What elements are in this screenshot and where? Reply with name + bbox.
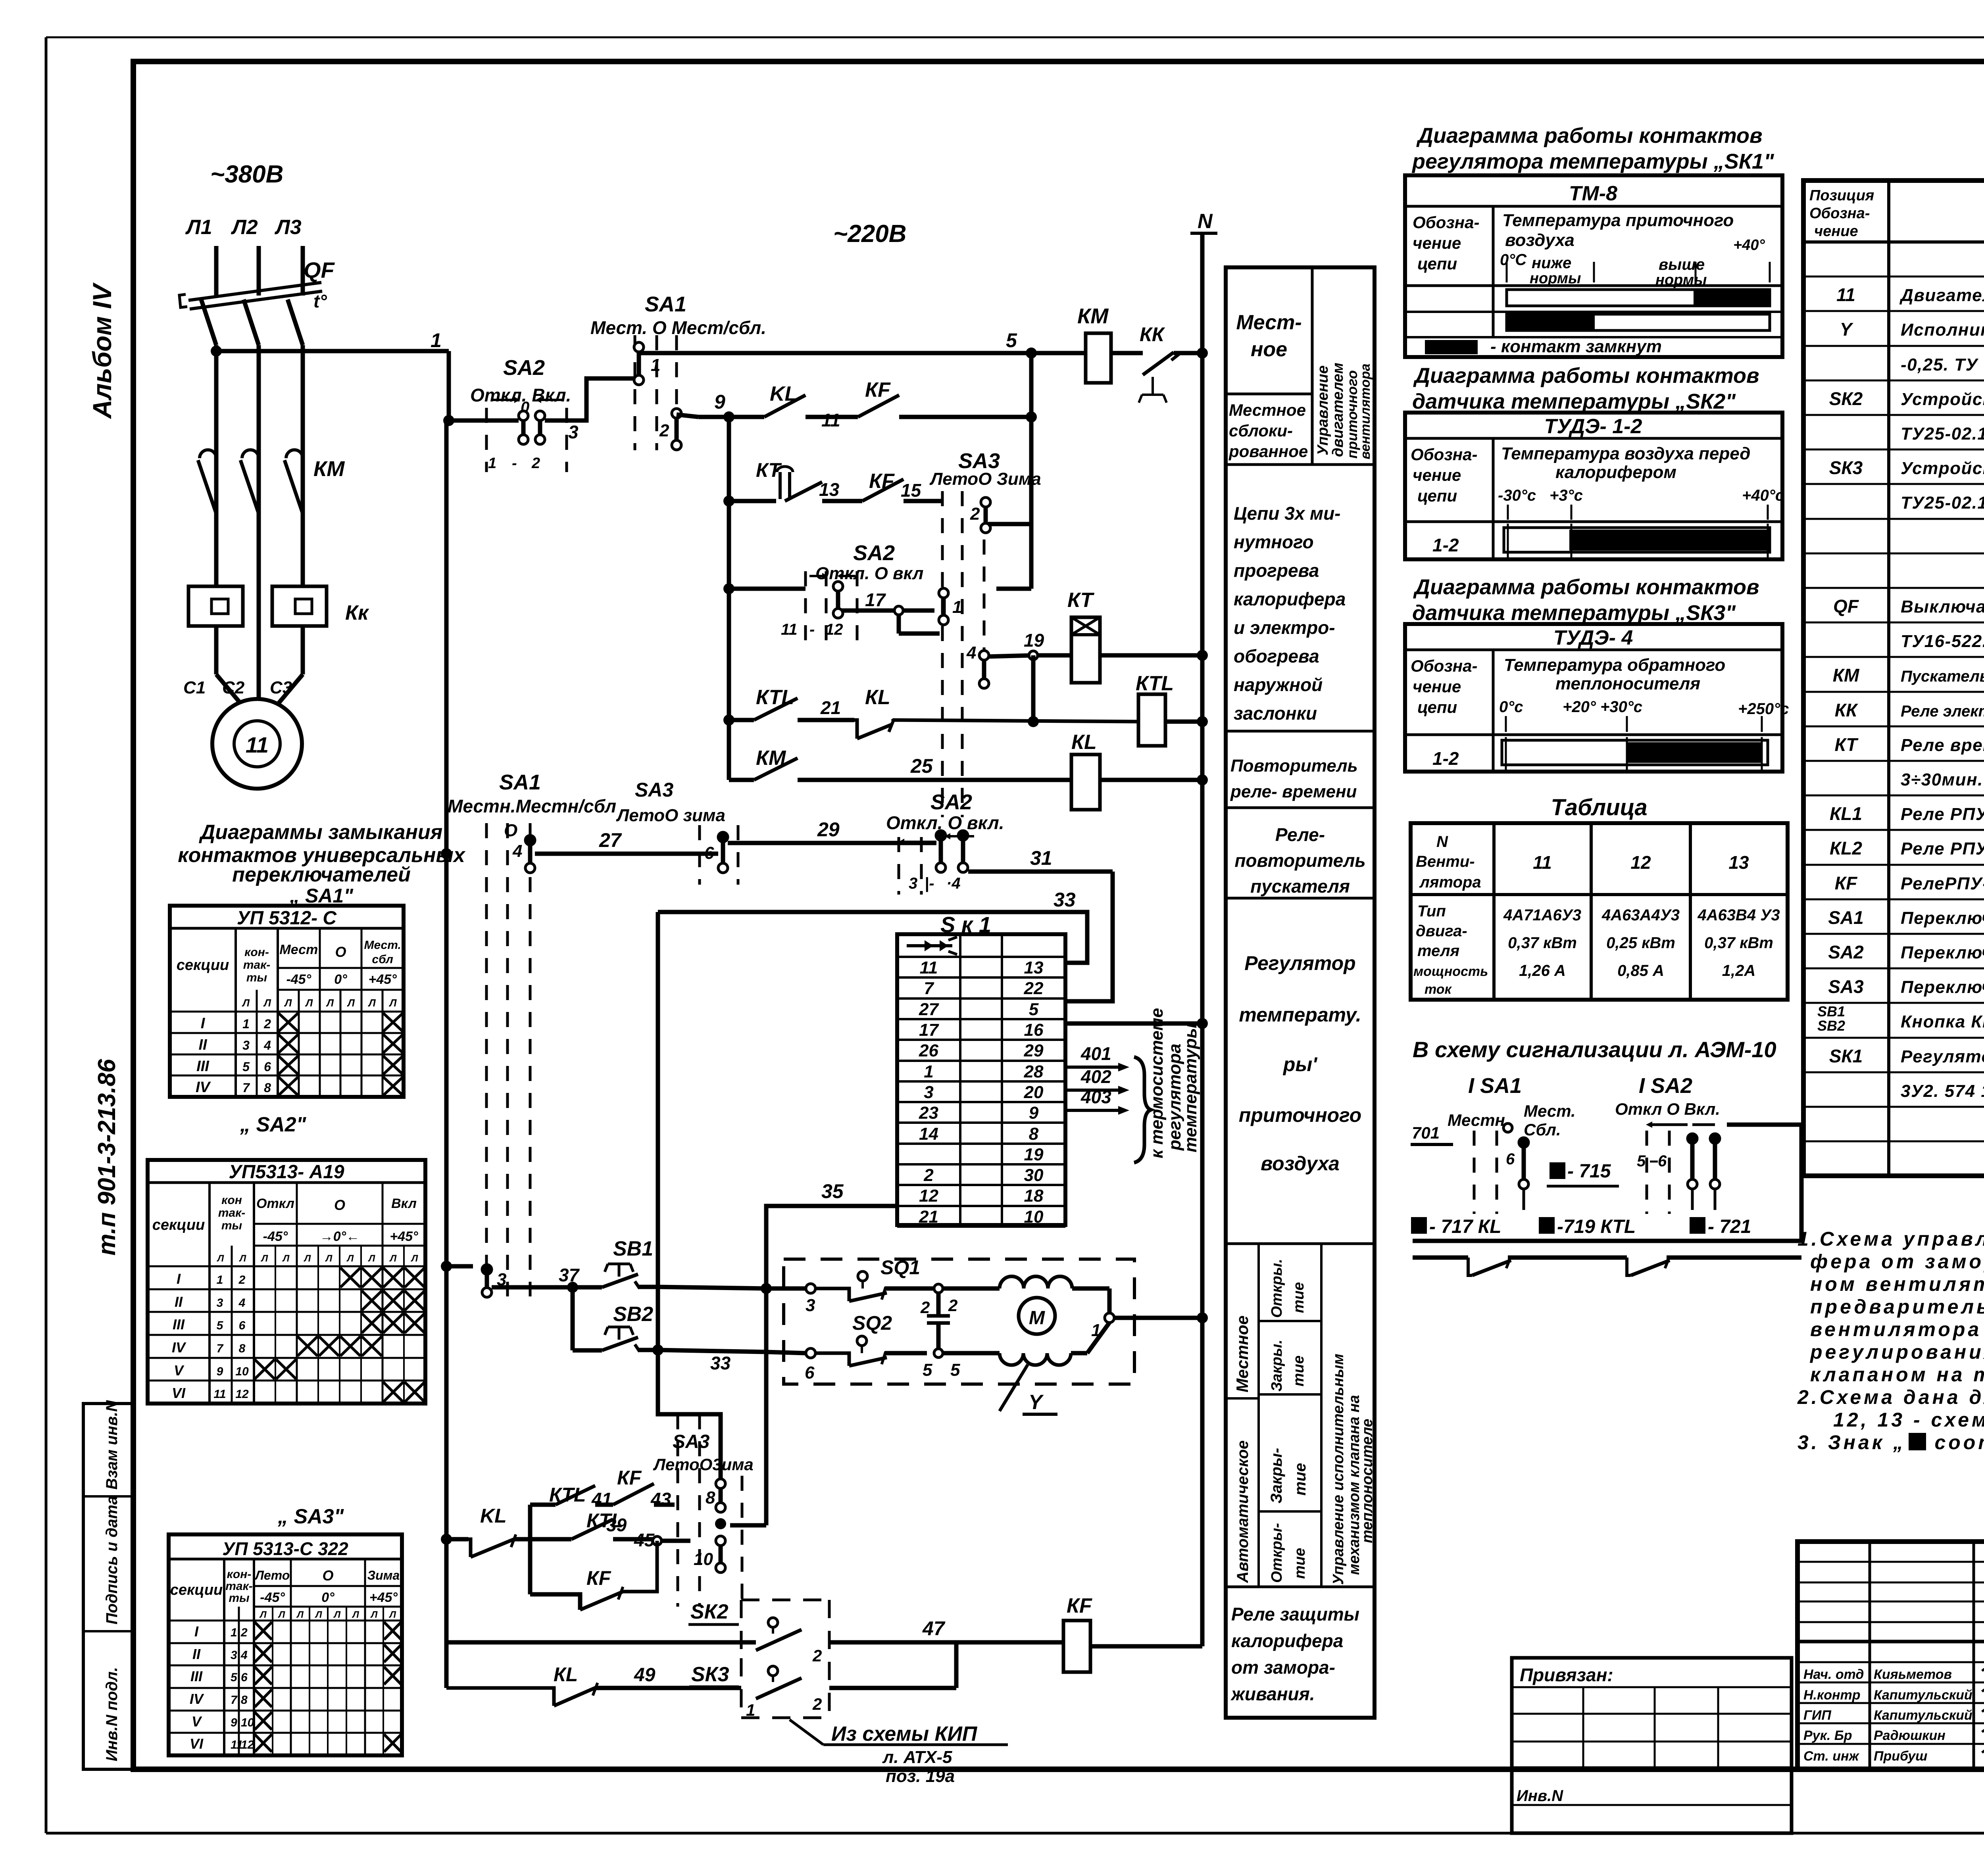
wires QF to KM	[216, 345, 303, 514]
svg-text:IV: IV	[190, 1691, 204, 1707]
svg-text:калорифера: калорифера	[1231, 1630, 1343, 1651]
svg-text:повторитель: повторитель	[1234, 850, 1365, 871]
note from KIP scheme	[790, 1720, 1008, 1767]
svg-text:УП 5313-С 322: УП 5313-С 322	[222, 1538, 348, 1559]
svg-text:t°: t°	[313, 291, 327, 311]
svg-text:Л2: Л2	[231, 216, 258, 239]
svg-text:так-: так-	[243, 958, 271, 972]
svg-text:16: 16	[1024, 1020, 1044, 1040]
svg-text:датчика температуры „SК3": датчика температуры „SК3"	[1412, 601, 1736, 625]
svg-text:III: III	[190, 1668, 203, 1684]
svg-text:ное: ное	[1251, 338, 1287, 361]
svg-text:Переключатель УП5312-С85 ТУ16: Переключатель УП5312-С85 ТУ16-524.074-75	[1901, 908, 1984, 928]
break contact KL row5	[854, 686, 1138, 739]
svg-text:Тип: Тип	[1417, 902, 1446, 920]
svg-text:КF: КF	[617, 1467, 642, 1489]
SA3 contact 2	[970, 497, 990, 533]
time contact KT row3	[723, 459, 862, 507]
svg-text:2: 2	[238, 1273, 246, 1287]
svg-text:33: 33	[1054, 889, 1076, 911]
svg-text:6: 6	[805, 1363, 815, 1383]
svg-text:ЛетоО Зима: ЛетоО Зима	[929, 469, 1041, 489]
svg-text:+250°с: +250°с	[1738, 700, 1789, 718]
svg-text:Цепи 3х ми-: Цепи 3х ми-	[1234, 503, 1341, 524]
svg-text:SA2: SA2	[503, 356, 545, 380]
label SA3	[277, 1505, 344, 1528]
switch SA2 contacts 1-2	[449, 356, 573, 472]
svg-text:1.Схема управления предусма: 1.Схема управления предусматривает защит…	[1798, 1228, 1984, 1250]
svg-text:3: 3	[242, 1038, 250, 1052]
svg-text:Y: Y	[1840, 319, 1854, 340]
rotated margin text t.p 901-3-213.86	[93, 1059, 121, 1256]
cell Rele-povtoritel puskatelya	[1226, 824, 1375, 898]
svg-text:SВ2: SВ2	[613, 1303, 653, 1326]
SK2 contact	[741, 1618, 829, 1665]
diagram title SK2	[1412, 364, 1759, 413]
svg-text:Диаграммы замыкания: Диаграммы замыкания	[199, 821, 443, 844]
svg-text:ТУ25-02.1074-75: ТУ25-02.1074-75	[1901, 424, 1984, 444]
relay coil KF	[1063, 1594, 1202, 1672]
parts list header	[1809, 187, 1984, 240]
svg-text:+45°: +45°	[369, 972, 397, 987]
svg-text:л. АТХ-5: л. АТХ-5	[882, 1747, 952, 1767]
svg-text:35: 35	[821, 1180, 844, 1202]
svg-text:49: 49	[634, 1665, 656, 1686]
svg-text:6: 6	[1506, 1150, 1515, 1168]
svg-text:1-2: 1-2	[1432, 535, 1459, 555]
label SK3	[689, 1663, 739, 1687]
svg-text:Реле электротепловое РТЛ-10060: Реле электротепловое РТЛ-100604.ТУ16-523…	[1901, 703, 1984, 720]
svg-text:12: 12	[235, 1388, 249, 1401]
svg-text:Откры-: Откры-	[1269, 1523, 1285, 1583]
svg-text:13: 13	[819, 479, 840, 500]
svg-text:Сбл.: Сбл.	[1524, 1120, 1561, 1139]
svg-text:8: 8	[1029, 1124, 1039, 1144]
SA3 contact 1	[939, 588, 962, 625]
svg-text:2: 2	[923, 1166, 934, 1185]
svg-text:Л: Л	[239, 1253, 246, 1264]
svg-text:КТ: КТ	[1835, 734, 1859, 755]
valve control cells	[1226, 1244, 1375, 1587]
svg-text:теля: теля	[1417, 942, 1459, 960]
svg-text:цепи: цепи	[1417, 698, 1457, 716]
incoming phase wires	[216, 246, 303, 296]
wire 29	[728, 818, 936, 843]
svg-text:температуры: температуры	[1181, 1023, 1200, 1152]
svg-text:SА1: SА1	[1828, 907, 1863, 928]
svg-text:Выключатель АЕ202Б-10Р-00У3: Выключатель АЕ202Б-10Р-00У3	[1901, 597, 1984, 616]
svg-text:4: 4	[512, 841, 522, 861]
SA3 section lines	[942, 491, 984, 817]
diagram title SK3	[1412, 575, 1759, 625]
svg-text:+20° +30°с: +20° +30°с	[1563, 698, 1642, 716]
svg-text:КК: КК	[1140, 323, 1165, 346]
svg-text:вентилятора и автоматическое: вентилятора и автоматическое подключение…	[1810, 1318, 1984, 1340]
riser 19 to KTL row	[1028, 655, 1039, 727]
svg-text:Температура воздуха перед: Температура воздуха перед	[1501, 444, 1750, 463]
svg-text:КL2: КL2	[1830, 838, 1862, 858]
svg-text:Закры.: Закры.	[1269, 1340, 1285, 1392]
svg-text:Позиция: Позиция	[1809, 187, 1874, 204]
svg-text:12: 12	[241, 1738, 254, 1751]
SA3 contact 4	[966, 643, 989, 688]
ISA2 contact group	[1615, 1100, 1720, 1214]
svg-text:Л1: Л1	[185, 216, 212, 239]
svg-text:11: 11	[1533, 852, 1552, 873]
svg-text:I SА2: I SА2	[1639, 1074, 1692, 1098]
notes text	[1797, 1228, 1984, 1454]
svg-text:Мест-: Мест-	[1236, 311, 1302, 334]
wire contact8 top rail	[716, 1504, 721, 1505]
wire 47 to KF coil	[829, 1617, 1063, 1642]
title block frame	[1798, 1542, 1984, 1769]
svg-text:12, 13 - схема аналогична.: 12, 13 - схема аналогична.	[1833, 1409, 1984, 1431]
svg-text:УП 5312- С: УП 5312- С	[237, 908, 337, 929]
svg-text:SК3: SК3	[691, 1663, 729, 1686]
svg-text:1: 1	[242, 1017, 250, 1031]
parts list table grid	[1803, 180, 1984, 1176]
svg-text:Откл О Вкл.: Откл О Вкл.	[1615, 1100, 1720, 1118]
svg-text:Капитульский: Капитульский	[1874, 1688, 1972, 1703]
svg-text:13: 13	[1024, 958, 1044, 977]
cell Cepi progreva	[1226, 503, 1375, 731]
svg-text:7: 7	[231, 1694, 238, 1707]
wire from SA3-2	[988, 522, 1030, 526]
wire 13 and contact KF row3	[819, 470, 942, 501]
svg-text:4А63А4У3: 4А63А4У3	[1601, 906, 1680, 924]
riser 33	[656, 912, 660, 1414]
svg-text:SА2: SА2	[1828, 942, 1864, 962]
svg-text:Кнопка КЕ011У3 исп 2. ТУ16-526: Кнопка КЕ011У3 исп 2. ТУ16-526.407-79	[1901, 1012, 1984, 1031]
svg-text:+40°: +40°	[1733, 237, 1765, 253]
svg-text:26: 26	[919, 1041, 938, 1060]
svg-text:тие: тие	[1292, 1463, 1309, 1496]
SA1 contact 3	[441, 1261, 506, 1297]
svg-text:Л: Л	[389, 1253, 397, 1264]
svg-text:секции: секции	[152, 1217, 205, 1233]
svg-text:Управление исполнительным: Управление исполнительным	[1330, 1354, 1347, 1585]
svg-text:6: 6	[239, 1319, 246, 1332]
svg-text:теплоносителя: теплоносителя	[1555, 674, 1700, 693]
svg-text:реле- времени: реле- времени	[1230, 782, 1357, 801]
label SK2	[688, 1600, 739, 1624]
svg-text:SA1: SA1	[645, 292, 686, 316]
svg-text:Н.контр: Н.контр	[1803, 1688, 1861, 1703]
svg-text:17: 17	[919, 1020, 939, 1040]
svg-text:→0°←: →0°←	[320, 1229, 360, 1244]
svg-text:2: 2	[240, 1626, 248, 1639]
contact KL row 39	[441, 1505, 627, 1557]
wire 37	[492, 1265, 602, 1293]
svg-text:SQ1: SQ1	[880, 1256, 920, 1279]
motor 11	[212, 699, 302, 789]
wire 31	[968, 847, 1113, 1001]
svg-text:43: 43	[650, 1489, 671, 1509]
svg-text:КМ: КМ	[1833, 665, 1860, 685]
svg-text:вентилятора: вентилятора	[1358, 363, 1373, 459]
svg-text:чение: чение	[1413, 234, 1461, 252]
svg-text:наружной: наружной	[1234, 674, 1323, 695]
svg-text:сблоки-: сблоки-	[1229, 421, 1293, 440]
svg-text:SК2: SК2	[1829, 388, 1863, 409]
svg-text:QF: QF	[1833, 596, 1859, 616]
svg-text:„ SА2": „ SА2"	[240, 1113, 307, 1136]
svg-text:Л: Л	[278, 1609, 285, 1620]
svg-text:0°С: 0°С	[1500, 251, 1527, 269]
svg-text:17: 17	[865, 589, 886, 610]
contact KTL branch 45	[530, 1509, 690, 1550]
svg-text:N: N	[1436, 833, 1448, 851]
actuator dashed box	[784, 1259, 1134, 1384]
svg-text:5: 5	[217, 1319, 224, 1332]
diagram table TM-8	[1405, 175, 1782, 357]
svg-text:5: 5	[242, 1060, 250, 1074]
riser SQ rows to SA3	[715, 1288, 766, 1529]
svg-text:IV: IV	[172, 1339, 186, 1356]
output arrows 401 402 403	[1065, 1043, 1129, 1115]
svg-text:Кияьметов: Кияьметов	[1874, 1667, 1952, 1682]
svg-text:О: О	[504, 821, 517, 840]
svg-text:II: II	[198, 1037, 208, 1053]
svg-text:Диаграмма работы контактов: Диаграмма работы контактов	[1416, 124, 1763, 148]
svg-text:11: 11	[213, 1388, 226, 1401]
svg-text:Рук. Бр: Рук. Бр	[1803, 1728, 1852, 1743]
svg-text:2.Схема дана для вентилят: 2.Схема дана для вентилятора 11, для вен…	[1797, 1386, 1984, 1408]
wire 16 to N bus	[1065, 1018, 1208, 1029]
svg-text:13: 13	[1728, 852, 1749, 873]
svg-text:8: 8	[264, 1081, 271, 1095]
svg-text:КF: КF	[586, 1567, 611, 1589]
svg-text:секции: секции	[170, 1582, 223, 1598]
svg-text:Пускатель ПМЛ-110004Б; Н~220В: Пускатель ПМЛ-110004Б; Н~220В ТУ16-644.0…	[1901, 668, 1984, 685]
svg-text:27: 27	[599, 829, 622, 851]
contact KTL row5	[723, 686, 854, 726]
switch SA3 lower labels	[653, 1431, 754, 1474]
labels V-717 KL V-719 KTL V-721	[1411, 1216, 1751, 1237]
parts list rows	[1817, 248, 1984, 1101]
bus for rows 3-6	[723, 411, 734, 780]
rotated Mestnoe (valve)	[1233, 1315, 1252, 1392]
svg-text:SA2: SA2	[930, 790, 972, 814]
limit switch SQ2	[805, 1312, 960, 1383]
svg-text:1: 1	[217, 1273, 223, 1287]
svg-text:ГИП: ГИП	[1803, 1708, 1832, 1723]
svg-text:Переключатель УП5313-А19 ТУ16: Переключатель УП5313-А19 ТУ16-524.074-75	[1901, 943, 1984, 962]
svg-text:Устройство терморегулирующееТУ: Устройство терморегулирующееТУДЕ-1-2	[1901, 390, 1984, 409]
svg-text:3÷30мин. ТУ16-647.002-83: 3÷30мин. ТУ16-647.002-83	[1901, 770, 1984, 789]
svg-text:1: 1	[651, 355, 660, 375]
contact KF branch 43	[613, 1467, 716, 1509]
svg-text:18: 18	[1024, 1186, 1044, 1206]
svg-text:I: I	[194, 1623, 199, 1640]
temperature regulator SK1 table	[897, 934, 1065, 1227]
svg-text:7: 7	[924, 979, 934, 998]
svg-text:2: 2	[920, 1298, 930, 1317]
svg-text:23: 23	[919, 1103, 938, 1123]
wire 35	[766, 1180, 897, 1288]
svg-text:от замора-: от замора-	[1231, 1657, 1335, 1678]
svg-text:Местное: Местное	[1229, 401, 1306, 419]
svg-text:О: О	[335, 944, 346, 960]
svg-text:10: 10	[241, 1716, 254, 1729]
switch diagram table SA1	[170, 906, 404, 1097]
svg-text:SК1: SК1	[1829, 1046, 1863, 1066]
SA3 lower section lines	[678, 1414, 742, 1607]
svg-text:калорифером: калорифером	[1555, 463, 1676, 482]
svg-text:Исполнительный механизм М90-0: Исполнительный механизм М90-0,63/63-	[1901, 320, 1984, 340]
svg-text:- 717 КL: - 717 КL	[1429, 1216, 1501, 1237]
svg-text:Л: Л	[315, 1609, 322, 1620]
svg-text:ТУДЭ- 4: ТУДЭ- 4	[1553, 626, 1633, 649]
svg-text:лятора: лятора	[1419, 874, 1481, 891]
title block signatures	[1803, 1666, 1984, 1764]
svg-text:47: 47	[922, 1617, 946, 1640]
svg-text:Л: Л	[305, 997, 313, 1009]
svg-text:+45°: +45°	[369, 1590, 398, 1605]
svg-text:Л: Л	[263, 997, 271, 1009]
svg-text:КL1: КL1	[1830, 803, 1862, 824]
svg-text:ТМ-8: ТМ-8	[1569, 182, 1617, 205]
svg-text:Реле РПУ-2-М36220У3-Б ТУ16-523: Реле РПУ-2-М36220У3-Б ТУ16-523.331-78	[1901, 805, 1984, 824]
svg-text:цепи: цепи	[1417, 486, 1457, 505]
riser from wire5	[996, 353, 1037, 589]
svg-text:8: 8	[706, 1488, 715, 1507]
svg-text:10: 10	[235, 1365, 249, 1378]
svg-text:III: III	[173, 1316, 185, 1333]
svg-text:Устройство терморегулирующее Т: Устройство терморегулирующее ТУДБ-4	[1901, 459, 1984, 478]
svg-text:6: 6	[241, 1671, 248, 1684]
svg-text:Л: Л	[325, 1253, 333, 1264]
svg-text:|-: |-	[925, 875, 934, 892]
svg-text:IV: IV	[196, 1079, 211, 1096]
diagram table TUDE-4	[1405, 624, 1789, 772]
svg-text:+3°с: +3°с	[1550, 487, 1583, 504]
svg-text:Местн.Местн/сбл: Местн.Местн/сбл	[448, 796, 616, 816]
signalling scheme title	[1413, 1037, 1776, 1062]
svg-text:Автоматическое: Автоматическое	[1234, 1440, 1252, 1583]
svg-text:4А71А6У3: 4А71А6У3	[1503, 906, 1581, 924]
svg-text:Л: Л	[259, 1609, 267, 1620]
svg-text:ЛетоО3има: ЛетоО3има	[653, 1455, 754, 1474]
svg-text:S к 1: S к 1	[940, 912, 991, 937]
svg-text:Кк: Кк	[345, 601, 369, 624]
svg-text:УП5313- А19: УП5313- А19	[229, 1162, 344, 1183]
svg-text:Мест. О Мест/сбл.: Мест. О Мест/сбл.	[590, 317, 766, 338]
svg-text:переключателей: переключателей	[232, 863, 411, 886]
note poz 19a	[886, 1767, 955, 1786]
svg-text:тие: тие	[1290, 1356, 1307, 1386]
svg-text:8: 8	[239, 1342, 246, 1355]
svg-text:20: 20	[1024, 1083, 1044, 1102]
label ISA2	[1639, 1074, 1692, 1098]
cell Povtoritel rele-vremeni	[1226, 756, 1375, 808]
svg-text:7: 7	[217, 1342, 224, 1355]
label SK1	[940, 912, 991, 937]
svg-text:к термосистеме: к термосистеме	[1147, 1008, 1167, 1158]
circuit breaker QF	[179, 257, 335, 345]
svg-text:Л3: Л3	[274, 216, 302, 239]
ISA1 contact group	[1411, 1102, 1576, 1214]
svg-text:Закры-: Закры-	[1268, 1448, 1285, 1503]
svg-text:4А63В4 У3: 4А63В4 У3	[1697, 906, 1780, 924]
svg-text:фера от замораживания при: фера от замораживания при работающем отк…	[1810, 1250, 1984, 1273]
row 49 KL contact	[446, 1663, 741, 1706]
cell Mestnoe	[1226, 267, 1312, 465]
time relay coil KTL	[1136, 672, 1208, 746]
svg-text:22: 22	[1024, 979, 1044, 998]
wire 49 joins 47	[829, 1642, 956, 1688]
contact diagrams header	[178, 821, 466, 907]
svg-text:4: 4	[966, 643, 976, 662]
svg-text:Двигатель ТУ16-510.: Двигатель ТУ16-510. 36Б- 77	[1899, 286, 1984, 305]
thermal contact KK	[1134, 323, 1202, 403]
svg-text:Откл. О вкл: Откл. О вкл	[815, 564, 923, 583]
svg-text:III: III	[196, 1058, 210, 1075]
left stamp column	[83, 1404, 133, 1769]
svg-text:кон-: кон-	[227, 1568, 252, 1581]
svg-text:КF: КF	[865, 378, 891, 401]
svg-text:Обозна-: Обозна-	[1411, 445, 1477, 464]
svg-text:VI: VI	[172, 1385, 186, 1401]
svg-text:Радюшкин: Радюшкин	[1874, 1728, 1946, 1743]
svg-text:28: 28	[1024, 1062, 1044, 1081]
svg-text:SК3: SК3	[1829, 457, 1863, 478]
svg-text:Температура приточного: Температура приточного	[1502, 211, 1734, 230]
svg-text:SВ1: SВ1	[1817, 1003, 1845, 1020]
SA3 contact 8	[706, 1479, 725, 1512]
svg-text:мощность: мощность	[1413, 964, 1488, 979]
ladder left riser	[528, 1505, 533, 1594]
svg-text:II: II	[192, 1646, 201, 1662]
svg-text:- контакт замкнут: - контакт замкнут	[1490, 337, 1662, 356]
svg-text:„ SА1": „ SА1"	[289, 885, 354, 907]
N bus	[1190, 210, 1217, 1646]
svg-text:11: 11	[246, 732, 269, 757]
svg-text:2: 2	[812, 1695, 822, 1713]
svg-text:1: 1	[488, 455, 496, 472]
time relay coil KT	[1067, 589, 1208, 683]
svg-text:-45°: -45°	[263, 1229, 288, 1244]
svg-text:Л: Л	[347, 997, 355, 1009]
svg-text:5: 5	[923, 1360, 932, 1380]
svg-text:воздуха: воздуха	[1261, 1152, 1340, 1175]
svg-text:„ SА3": „ SА3"	[277, 1505, 344, 1528]
svg-text:3: 3	[231, 1649, 237, 1662]
cell Mestnoe sblokirovannoe	[1226, 401, 1375, 465]
svg-text:402: 402	[1080, 1066, 1111, 1087]
svg-text:KL: KL	[480, 1505, 507, 1527]
rotated Upravlenie ispolnitelnym	[1330, 1354, 1376, 1585]
svg-text:2: 2	[531, 455, 540, 472]
svg-text:19: 19	[1024, 1145, 1044, 1164]
svg-text:Привязан:: Привязан:	[1520, 1665, 1613, 1685]
svg-text:19: 19	[1024, 630, 1044, 651]
svg-text:6: 6	[1658, 1152, 1667, 1170]
relay contact KL row2	[764, 382, 858, 417]
svg-text:SВ1: SВ1	[613, 1237, 653, 1260]
svg-text:0,37 кВт: 0,37 кВт	[1508, 934, 1577, 952]
svg-text:Л: Л	[217, 1253, 224, 1264]
svg-text:Альбом ІV: Альбом ІV	[87, 282, 117, 419]
svg-text:ры': ры'	[1282, 1053, 1318, 1075]
svg-text:Реле РПУ2-М36240У3-Б. ТУ16-523: Реле РПУ2-М36240У3-Б. ТУ16-523.331-78	[1901, 839, 1984, 858]
svg-text:клапаном на теплоносителе п: клапаном на теплоносителе после калорифе…	[1810, 1363, 1984, 1386]
svg-text:ты: ты	[229, 1592, 250, 1605]
svg-text:SQ2: SQ2	[852, 1312, 892, 1334]
svg-text:9: 9	[231, 1716, 237, 1729]
rotated margin text Album IV	[87, 282, 117, 419]
svg-text:2: 2	[812, 1646, 822, 1665]
